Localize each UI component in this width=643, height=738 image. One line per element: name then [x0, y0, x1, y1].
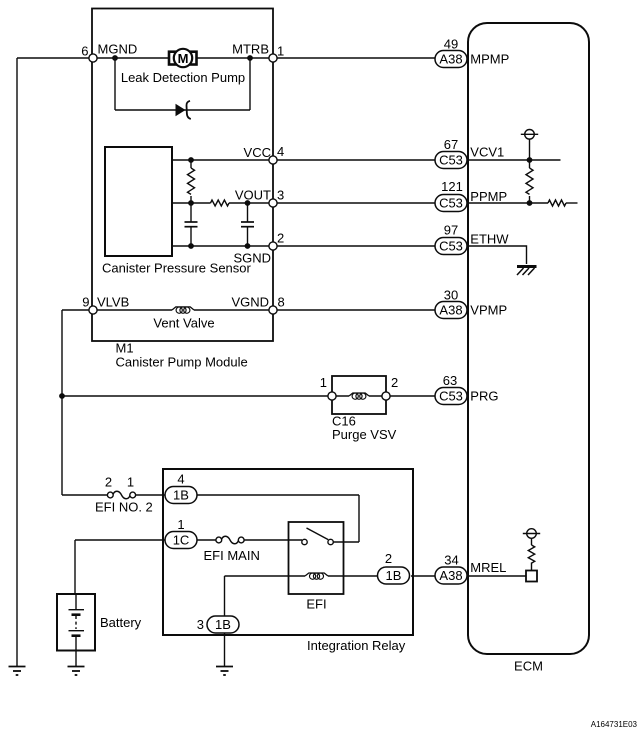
svg-text:3: 3	[277, 188, 284, 203]
svg-text:VCV1: VCV1	[470, 145, 504, 160]
svg-text:2: 2	[277, 231, 284, 246]
svg-text:67: 67	[444, 137, 458, 152]
svg-text:EFI NO. 2: EFI NO. 2	[95, 500, 153, 515]
svg-text:30: 30	[444, 288, 458, 303]
svg-text:1B: 1B	[173, 488, 189, 503]
svg-text:Canister Pressure Sensor: Canister Pressure Sensor	[102, 261, 252, 276]
svg-text:ETHW: ETHW	[470, 232, 509, 247]
svg-text:3: 3	[197, 617, 204, 632]
svg-text:VLVB: VLVB	[97, 295, 129, 310]
svg-text:VCC: VCC	[244, 145, 271, 160]
svg-text:ECM: ECM	[514, 659, 543, 674]
svg-text:MGND: MGND	[98, 42, 138, 57]
svg-text:2: 2	[385, 551, 392, 566]
svg-text:PPMP: PPMP	[470, 189, 507, 204]
svg-text:MPMP: MPMP	[470, 52, 509, 67]
svg-text:MTRB: MTRB	[232, 42, 269, 57]
svg-text:2: 2	[391, 375, 398, 390]
svg-text:8: 8	[278, 295, 285, 310]
svg-text:A38: A38	[439, 303, 462, 318]
svg-text:34: 34	[444, 553, 458, 568]
svg-text:A38: A38	[439, 568, 462, 583]
svg-text:1: 1	[177, 517, 184, 532]
svg-text:Leak Detection Pump: Leak Detection Pump	[121, 70, 245, 85]
svg-text:Battery: Battery	[100, 615, 142, 630]
svg-text:VGND: VGND	[231, 295, 269, 310]
svg-text:1: 1	[320, 375, 327, 390]
svg-text:4: 4	[177, 472, 184, 487]
svg-text:1B: 1B	[215, 617, 231, 632]
svg-text:A164731E03: A164731E03	[591, 720, 638, 729]
svg-text:2: 2	[105, 475, 112, 490]
svg-text:M1: M1	[116, 341, 134, 356]
svg-text:C53: C53	[439, 153, 463, 168]
svg-text:C53: C53	[439, 239, 463, 254]
svg-text:Purge VSV: Purge VSV	[332, 427, 397, 442]
svg-text:EFI MAIN: EFI MAIN	[204, 548, 260, 563]
svg-text:EFI: EFI	[306, 597, 326, 612]
svg-text:Vent Valve: Vent Valve	[153, 316, 214, 331]
svg-text:6: 6	[81, 44, 88, 59]
svg-text:C53: C53	[439, 389, 463, 404]
svg-text:1B: 1B	[386, 568, 402, 583]
svg-text:1: 1	[127, 475, 134, 490]
svg-text:Canister Pump Module: Canister Pump Module	[116, 355, 248, 370]
svg-text:VOUT: VOUT	[235, 188, 271, 203]
svg-text:49: 49	[444, 37, 458, 52]
svg-text:63: 63	[443, 373, 457, 388]
svg-text:1: 1	[277, 44, 284, 59]
svg-text:97: 97	[444, 223, 458, 238]
svg-text:121: 121	[441, 179, 463, 194]
svg-text:MREL: MREL	[470, 560, 506, 575]
svg-text:Integration Relay: Integration Relay	[307, 638, 406, 653]
svg-text:PRG: PRG	[470, 389, 498, 404]
svg-text:VPMP: VPMP	[470, 303, 507, 318]
svg-text:C53: C53	[439, 196, 463, 211]
svg-text:1C: 1C	[173, 533, 190, 548]
svg-text:9: 9	[82, 295, 89, 310]
svg-text:A38: A38	[439, 52, 462, 67]
svg-text:M: M	[178, 51, 189, 66]
svg-text:4: 4	[277, 144, 284, 159]
